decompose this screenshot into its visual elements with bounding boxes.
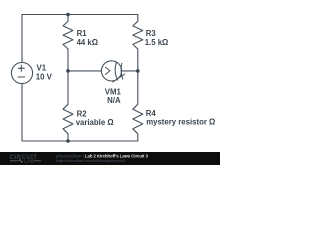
resistor R2 bbox=[63, 71, 73, 141]
svg-text:LAB: LAB bbox=[24, 159, 35, 164]
junction node top (R1/top wire) bbox=[66, 13, 70, 17]
junction node A (R1/R2/voltmeter) bbox=[66, 69, 70, 73]
svg-text:N/A: N/A bbox=[107, 96, 121, 105]
wire bottom horizontal bbox=[22, 140, 138, 142]
svg-text:R3: R3 bbox=[146, 29, 157, 38]
svg-text:V1: V1 bbox=[37, 64, 47, 73]
junction node bottom (R2/bottom wire) bbox=[66, 139, 70, 143]
wire left vertical lower (V1 minus terminal to bottom wire) bbox=[21, 84, 23, 141]
resistor R1 bbox=[63, 15, 73, 71]
resistor R4 bbox=[133, 71, 143, 141]
svg-text:44 kΩ: 44 kΩ bbox=[77, 38, 98, 47]
wire middle left (node A to voltmeter) bbox=[68, 70, 102, 72]
svg-text:http://circuitlab.com/c/5mbsya: http://circuitlab.com/c/5mbsyadxvyk2/ bbox=[56, 159, 126, 163]
svg-text:variable Ω: variable Ω bbox=[76, 118, 114, 127]
wire left vertical upper (top wire to V1 plus terminal) bbox=[21, 15, 23, 63]
svg-text:R1: R1 bbox=[77, 29, 88, 38]
CircuitLab logo LAB line bbox=[10, 159, 41, 162]
resistor R3 bbox=[133, 15, 143, 71]
svg-text:10 V: 10 V bbox=[36, 73, 53, 82]
svg-text:1.5 kΩ: 1.5 kΩ bbox=[145, 38, 169, 47]
voltmeter VM1 bbox=[101, 61, 121, 81]
wire middle right (voltmeter to node B) bbox=[122, 70, 138, 72]
wire top horizontal bbox=[22, 14, 138, 16]
voltmeter VM1 inner symbol bbox=[105, 62, 125, 82]
voltage source V1 bbox=[11, 62, 32, 83]
svg-text:physicsphun | Lab 2 Kirchhoff': physicsphun | Lab 2 Kirchhoff's Laws Cir… bbox=[56, 153, 149, 158]
junction node B (R3/R4/voltmeter) bbox=[136, 69, 140, 73]
svg-text:mystery resistor Ω: mystery resistor Ω bbox=[146, 117, 215, 126]
footer watermark bar bbox=[0, 152, 220, 165]
